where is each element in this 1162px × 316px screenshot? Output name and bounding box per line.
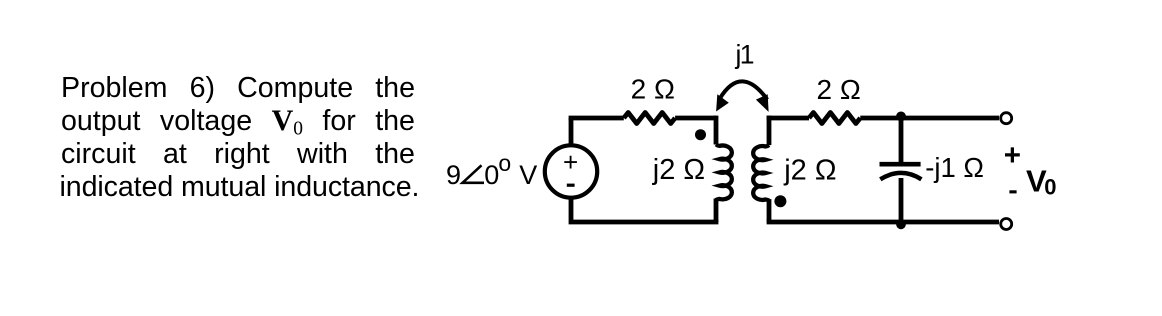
problem statement text line 2 [61, 104, 415, 138]
minus sign in source [567, 184, 575, 187]
svg-text:9: 9 [446, 160, 461, 190]
wire: loop1 right stem down to coil [714, 116, 719, 145]
junction node bottom [896, 219, 906, 229]
svg-text:o: o [498, 150, 511, 176]
svg-text:V: V [519, 160, 537, 190]
label 2 ohm R2 [817, 74, 861, 105]
problem statement text line 4 [60, 170, 480, 204]
junction node top [896, 112, 906, 122]
wire: capacitor top stem [899, 118, 904, 162]
capacitor C1 plates [880, 164, 922, 179]
dot polarity mark on L2 [774, 195, 786, 207]
label -j1 ohm C1 [925, 152, 984, 183]
plus sign in source [563, 147, 578, 177]
wire: loop1 top right segment [675, 116, 716, 121]
voltage source VS circle [545, 145, 597, 197]
svg-text:2 Ω: 2 Ω [631, 74, 675, 105]
inductor L2 coil [753, 145, 769, 201]
problem statement text line 1 [61, 71, 415, 105]
wire: loop1 bottom [571, 198, 718, 222]
resistor R2 zigzag [809, 113, 860, 124]
svg-text:j2 Ω: j2 Ω [783, 155, 836, 187]
label 9 of source value [446, 160, 461, 190]
label j2 ohm L1 [652, 154, 705, 186]
wire: loop2 top left segment [767, 116, 809, 121]
wire: loop1 top left segment [569, 116, 624, 121]
svg-text:-j1 Ω: -j1 Ω [925, 152, 984, 183]
wire: capacitor bottom stem [899, 178, 904, 222]
mutual coupling arc [720, 81, 768, 99]
svg-text:2 Ω: 2 Ω [817, 74, 861, 105]
svg-text:0: 0 [484, 160, 499, 190]
svg-text:+: + [1004, 139, 1021, 172]
angle symbol of source label [463, 165, 485, 183]
svg-text:j2 Ω: j2 Ω [652, 154, 705, 186]
label j2 ohm L2 [783, 155, 836, 187]
resistor R1 zigzag [624, 113, 675, 124]
mutual arrow right head [756, 94, 769, 112]
wire: loop2 bottom [767, 220, 999, 225]
svg-text:j1: j1 [735, 40, 754, 70]
wire: loop1 right stem below coil [714, 199, 719, 223]
label 2 ohm R1 [631, 74, 675, 105]
dot polarity mark on L1 [695, 129, 706, 140]
wire: loop2 left stem top [767, 116, 772, 146]
wire: loop2 left stem bottom [767, 199, 772, 222]
output terminal top [1001, 113, 1012, 124]
output minus [1009, 190, 1016, 193]
label j1 mutual [735, 40, 754, 70]
mutual arrow left head [716, 94, 729, 111]
inductor L1 coil [716, 145, 732, 201]
label V of source value [519, 160, 537, 190]
svg-text:0: 0 [1044, 175, 1056, 200]
output plus [1004, 139, 1021, 172]
wire: source top stem [569, 118, 574, 146]
label 0 of source value [484, 160, 499, 190]
superscript o of source label [498, 150, 511, 176]
problem statement text line 3 [61, 137, 415, 171]
svg-text:+: + [563, 147, 578, 177]
output terminal bottom [1001, 219, 1012, 230]
wire: loop2 top right segment to terminal [860, 116, 999, 121]
output V0 [1026, 163, 1057, 199]
